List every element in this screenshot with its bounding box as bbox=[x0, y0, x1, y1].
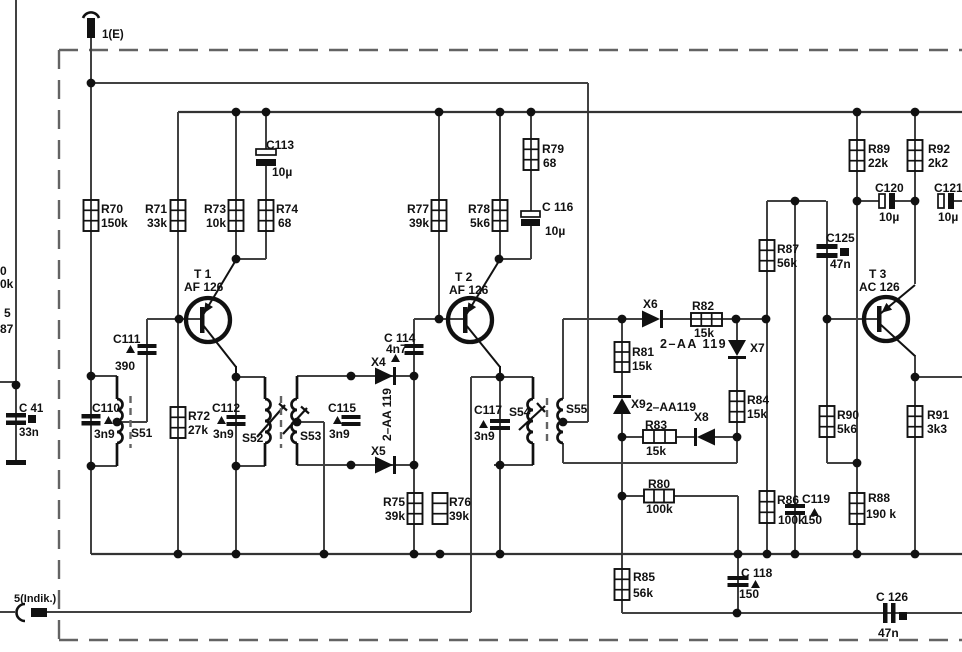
inductor S55 bbox=[558, 399, 588, 443]
svg-text:R89: R89 bbox=[868, 142, 890, 156]
capacitor C112 bbox=[212, 401, 246, 441]
diode X7 bbox=[728, 340, 765, 359]
diode X6 bbox=[642, 297, 663, 328]
capacitor C114 bbox=[384, 331, 424, 362]
resistor R88 bbox=[850, 491, 897, 524]
wire: top supply bus y=112 bbox=[178, 111, 962, 113]
dashed enclosure border left bbox=[58, 50, 60, 640]
wire: T1 collector tank vertical x=236 bbox=[235, 377, 237, 554]
node X8/R84 bbox=[733, 433, 742, 442]
dashed enclosure border top bbox=[59, 49, 962, 51]
wire: T2 base wire bbox=[414, 318, 463, 320]
wire: T1 base wire bbox=[147, 318, 202, 320]
svg-text:47n: 47n bbox=[830, 257, 851, 271]
svg-text:R80: R80 bbox=[648, 477, 670, 491]
wire: S52 tank bottom bbox=[236, 465, 265, 467]
wire: R80 link bbox=[622, 495, 644, 497]
svg-text:T 1: T 1 bbox=[194, 267, 212, 281]
wire: detector node x=414 bbox=[413, 319, 415, 554]
node gnd R75 bbox=[410, 550, 419, 559]
wire: S54 tank bottom bbox=[494, 464, 533, 466]
wire: R77 vertical x=439 bbox=[438, 112, 440, 319]
svg-text:S53: S53 bbox=[300, 429, 322, 443]
wire: S53 bottom to X5 bbox=[297, 464, 414, 466]
resistor R84 bbox=[730, 391, 770, 422]
node bus/R78 bbox=[496, 108, 505, 117]
node T2 emitter bbox=[495, 255, 504, 264]
svg-text:C112: C112 bbox=[212, 401, 240, 415]
svg-text:15k: 15k bbox=[646, 444, 666, 458]
svg-text:87: 87 bbox=[0, 322, 14, 336]
resistor R90 bbox=[820, 406, 860, 437]
wire: S51 tap to C111 bbox=[117, 421, 147, 423]
wire: S55 bottom return y=463 bbox=[563, 462, 737, 464]
svg-text:R91: R91 bbox=[927, 408, 949, 422]
svg-text:R75: R75 bbox=[383, 495, 405, 509]
svg-text:3n9: 3n9 bbox=[329, 427, 350, 441]
node gnd R86 bbox=[763, 550, 772, 559]
svg-text:R72: R72 bbox=[188, 409, 210, 423]
svg-text:X7: X7 bbox=[750, 341, 765, 355]
svg-text:R79: R79 bbox=[542, 142, 564, 156]
svg-text:10k: 10k bbox=[206, 216, 226, 230]
resistor R87 bbox=[760, 240, 800, 271]
node S51 tap bbox=[113, 418, 122, 427]
svg-text:0k: 0k bbox=[0, 277, 14, 291]
svg-text:C 116: C 116 bbox=[542, 200, 574, 214]
svg-text:C 41: C 41 bbox=[19, 403, 44, 415]
wire: X8 node riser x=737 bbox=[736, 437, 738, 463]
wire: X6/R81/X9/R85 vertical x=622 bbox=[621, 319, 623, 395]
wire: C119 vertical x=795 bbox=[794, 201, 796, 554]
svg-text:S55: S55 bbox=[566, 402, 588, 416]
resistor R92 bbox=[908, 140, 951, 171]
resistor R74 bbox=[259, 200, 299, 231]
terminal 5(Indik.) bbox=[14, 593, 57, 621]
svg-text:5: 5 bbox=[4, 306, 11, 320]
svg-text:15k: 15k bbox=[632, 359, 652, 373]
svg-text:33n: 33n bbox=[19, 427, 39, 439]
node gnd R72 bbox=[174, 550, 183, 559]
node R82/R87 bbox=[762, 315, 771, 324]
wire: C113/R74 vertical x=266 bbox=[265, 112, 267, 149]
wire: R71/R72 vertical x=178 bbox=[177, 112, 179, 554]
wire: C116 jog y=259 bbox=[499, 258, 531, 260]
svg-text:190 k: 190 k bbox=[866, 507, 896, 521]
node T1 base bbox=[175, 315, 184, 324]
resistor R72 bbox=[171, 407, 211, 438]
resistor R89 bbox=[850, 140, 891, 171]
node gnd R80/C118 bbox=[734, 550, 743, 559]
svg-text:3k3: 3k3 bbox=[927, 422, 947, 436]
inductor S51 bbox=[117, 376, 153, 466]
inductor S52 bbox=[242, 377, 287, 466]
node C115 bottom bbox=[347, 461, 356, 470]
svg-text:X5: X5 bbox=[371, 444, 386, 458]
svg-text:5k6: 5k6 bbox=[470, 216, 490, 230]
capacitor C113 bbox=[256, 138, 294, 179]
svg-text:C111: C111 bbox=[113, 332, 141, 346]
svg-text:R87: R87 bbox=[777, 242, 799, 256]
svg-text:T 3: T 3 bbox=[869, 267, 887, 281]
svg-text:AF 126: AF 126 bbox=[449, 283, 489, 297]
wire: indicator line y=612 bbox=[47, 611, 471, 613]
node X4 cathode bbox=[410, 372, 419, 381]
node S52 tank bottom bbox=[232, 462, 241, 471]
svg-text:X8: X8 bbox=[694, 410, 709, 424]
svg-text:2–AA 119: 2–AA 119 bbox=[660, 337, 727, 351]
node S51 top bbox=[87, 372, 96, 381]
svg-text:56k: 56k bbox=[633, 586, 653, 600]
svg-text:3n9: 3n9 bbox=[474, 429, 495, 443]
node bus/C113 bbox=[262, 108, 271, 117]
wire: S55 bottom stem bbox=[562, 443, 564, 463]
transistor T3 bbox=[859, 267, 915, 356]
svg-text:R84: R84 bbox=[747, 393, 769, 407]
wire: AGC output line y=613 bbox=[622, 612, 962, 614]
resistor R80 bbox=[644, 490, 674, 503]
svg-text:68: 68 bbox=[278, 216, 292, 230]
svg-text:C110: C110 bbox=[92, 401, 120, 415]
node bus/R92 bbox=[911, 108, 920, 117]
node gnd C117 bbox=[496, 550, 505, 559]
wire: 1(E) feed vertical x=91 bbox=[90, 38, 92, 554]
svg-text:R88: R88 bbox=[868, 491, 890, 505]
resistor R82 bbox=[691, 313, 722, 326]
wire: X7/R84 vertical x=737 bbox=[736, 319, 738, 340]
node T1 collector bbox=[232, 373, 241, 382]
inductor S53 bbox=[283, 376, 322, 465]
node bus/R77 bbox=[435, 108, 444, 117]
wire: S54 tank top bbox=[471, 376, 533, 378]
wire: ground bus y=554 bbox=[91, 553, 962, 555]
wire: S53 tap bbox=[297, 421, 324, 423]
svg-text:1(E): 1(E) bbox=[102, 29, 124, 41]
wire: R83-X8 link y=437 bbox=[622, 436, 643, 438]
wire: C118 vertical x=738 bbox=[737, 554, 739, 613]
wire: S53 top to X4 bbox=[297, 375, 414, 377]
wire: R78 vertical x=500 bbox=[499, 112, 501, 259]
resistor R86 bbox=[760, 491, 806, 527]
wire: C120/C121 link y=201 bbox=[857, 200, 879, 202]
node C119 top bbox=[791, 197, 800, 206]
svg-text:R77: R77 bbox=[407, 202, 429, 216]
wire: C125 vertical x=827 bbox=[826, 201, 828, 319]
node gnd S53 tap bbox=[320, 550, 329, 559]
wire: AGC vertical down to S55 tap bbox=[587, 83, 589, 422]
resistor R83 bbox=[643, 430, 676, 443]
svg-text:AF 126: AF 126 bbox=[184, 280, 224, 294]
wire: S55 top stem bbox=[562, 319, 564, 399]
wire: R90 vertical x=827 bbox=[826, 319, 828, 463]
capacitor C118 bbox=[728, 566, 773, 601]
svg-text:15k: 15k bbox=[747, 407, 767, 421]
capacitor C125 bbox=[817, 231, 856, 271]
wire: C117 vertical x=500 bbox=[499, 377, 501, 554]
wire: filter top link y=201 bbox=[767, 200, 826, 202]
svg-text:100k: 100k bbox=[778, 513, 805, 527]
svg-text:27k: 27k bbox=[188, 423, 208, 437]
wire: R79/C116 vertical x=531 bbox=[530, 112, 532, 211]
svg-text:R76: R76 bbox=[449, 495, 471, 509]
svg-text:R92: R92 bbox=[928, 142, 950, 156]
wire: S51 tank top bbox=[91, 375, 117, 377]
svg-text:S54: S54 bbox=[509, 405, 531, 419]
svg-text:68: 68 bbox=[543, 156, 557, 170]
svg-text:AC 126: AC 126 bbox=[859, 280, 900, 294]
resistor R73 bbox=[204, 200, 244, 231]
node X5 cathode bbox=[410, 461, 419, 470]
transistor T1 bbox=[184, 260, 236, 378]
svg-text:10µ: 10µ bbox=[938, 210, 958, 224]
svg-text:R81: R81 bbox=[632, 345, 654, 359]
S54/S55 core (dashed) bbox=[546, 398, 548, 446]
wire: R90 bottom jog bbox=[827, 462, 857, 464]
svg-text:10µ: 10µ bbox=[545, 224, 565, 238]
S51 core (dashed) bbox=[129, 396, 131, 448]
node gnd R88 bbox=[853, 550, 862, 559]
svg-text:22k: 22k bbox=[868, 156, 888, 170]
wire: R92/T3 vertical x=915 bbox=[914, 112, 916, 284]
svg-text:100k: 100k bbox=[646, 502, 673, 516]
svg-text:R90: R90 bbox=[837, 408, 859, 422]
diode X9 bbox=[613, 395, 646, 414]
svg-text:2k2: 2k2 bbox=[928, 156, 948, 170]
capacitor C117 bbox=[474, 403, 510, 443]
wire: R89/R88 vertical x=857 bbox=[856, 112, 858, 554]
svg-text:X4: X4 bbox=[371, 355, 386, 369]
svg-text:C 118: C 118 bbox=[741, 566, 773, 580]
node T1 emitter bbox=[232, 255, 241, 264]
svg-text:5(Indik.): 5(Indik.) bbox=[14, 593, 57, 605]
svg-text:150k: 150k bbox=[101, 216, 128, 230]
capacitor C111 bbox=[113, 332, 157, 373]
wire: C111 branch vertical x=147 bbox=[146, 319, 148, 422]
inductor S54 bbox=[509, 377, 545, 465]
node bus/R73 bbox=[232, 108, 241, 117]
node on left line bbox=[12, 381, 21, 390]
resistor R76 bbox=[433, 493, 472, 524]
wire: stub from left edge bbox=[0, 381, 16, 383]
svg-text:2–AA 119: 2–AA 119 bbox=[380, 388, 394, 441]
node T3 base/C125 bbox=[823, 315, 832, 324]
resistor R71 bbox=[145, 200, 186, 231]
dashed enclosure border bottom bbox=[59, 639, 962, 641]
node S51 bottom bbox=[87, 462, 96, 471]
wire: indicator line x=471 bbox=[470, 377, 472, 612]
node bus/R89 bbox=[853, 108, 862, 117]
node gnd C112 bbox=[232, 550, 241, 559]
resistor R77 bbox=[407, 200, 447, 231]
svg-text:150: 150 bbox=[739, 587, 759, 601]
wire: R87/R86 vertical x=767 bbox=[766, 201, 768, 554]
wire: S55 top to X6/R82 y=319 bbox=[563, 318, 642, 320]
resistor R78 bbox=[468, 200, 508, 231]
S52/S53 core (dashed) bbox=[280, 396, 282, 448]
resistor R81 bbox=[615, 342, 655, 373]
wire: left off-page vertical line bbox=[15, 0, 17, 462]
svg-text:R71: R71 bbox=[145, 202, 167, 216]
ground symbol bbox=[6, 460, 26, 465]
svg-text:R82: R82 bbox=[692, 299, 714, 313]
capacitor C126 bbox=[876, 590, 908, 640]
svg-text:56k: 56k bbox=[777, 256, 797, 270]
svg-text:T 2: T 2 bbox=[455, 270, 473, 284]
svg-text:C 126: C 126 bbox=[876, 590, 908, 604]
capacitor C116 bbox=[521, 200, 574, 238]
capacitor C120 bbox=[875, 181, 904, 224]
wire: AGC line y=83 from 1(E) bbox=[91, 82, 588, 84]
svg-text:C113: C113 bbox=[266, 138, 294, 152]
node C115 top bbox=[347, 372, 356, 381]
resistor R75 bbox=[383, 493, 423, 524]
node gnd C119 bbox=[791, 550, 800, 559]
svg-text:3n9: 3n9 bbox=[213, 427, 234, 441]
diode X4 bbox=[371, 355, 396, 385]
node X6 anode bbox=[618, 315, 627, 324]
svg-text:10µ: 10µ bbox=[272, 165, 292, 179]
svg-text:3n9: 3n9 bbox=[94, 427, 115, 441]
node R82/X7 bbox=[732, 315, 741, 324]
resistor R85 bbox=[615, 569, 656, 600]
node C118/indicator bbox=[733, 609, 742, 618]
svg-text:C119: C119 bbox=[802, 492, 830, 506]
svg-text:X6: X6 bbox=[643, 297, 658, 311]
resistor R79 bbox=[524, 139, 565, 170]
diode X8 bbox=[694, 410, 715, 446]
svg-text:R78: R78 bbox=[468, 202, 490, 216]
svg-text:C121: C121 bbox=[934, 181, 962, 195]
svg-text:0: 0 bbox=[0, 264, 7, 278]
node S55 tap bbox=[559, 418, 568, 427]
resistor R91 bbox=[908, 406, 950, 437]
wire: indicator terminal lead bbox=[0, 611, 15, 613]
svg-text:R74: R74 bbox=[276, 202, 298, 216]
svg-text:R85: R85 bbox=[633, 570, 655, 584]
svg-text:R70: R70 bbox=[101, 202, 123, 216]
capacitor C41 bbox=[6, 403, 44, 439]
wire: S52 tank top bbox=[236, 376, 265, 378]
svg-text:R83: R83 bbox=[645, 418, 667, 432]
node gnd R91 bbox=[911, 550, 920, 559]
wire: S51 tank bottom bbox=[91, 465, 117, 467]
wire: S55 tap bbox=[563, 421, 588, 423]
capacitor C119 bbox=[785, 492, 830, 527]
svg-text:5k6: 5k6 bbox=[837, 422, 857, 436]
svg-text:390: 390 bbox=[115, 359, 135, 373]
svg-text:2–AA119: 2–AA119 bbox=[646, 400, 696, 414]
node C117 bottom bbox=[496, 461, 505, 470]
node T2 collector bbox=[496, 373, 505, 382]
resistor R70 bbox=[84, 200, 129, 231]
diode X5 bbox=[371, 444, 396, 474]
wire: T3 collector output y=377 bbox=[915, 376, 962, 378]
svg-text:C115: C115 bbox=[328, 401, 356, 415]
svg-text:X9: X9 bbox=[631, 397, 646, 411]
svg-text:C117: C117 bbox=[474, 403, 502, 417]
node S53 tap bbox=[293, 418, 302, 427]
wire: T3 base wire bbox=[827, 318, 878, 320]
svg-text:39k: 39k bbox=[409, 216, 429, 230]
svg-text:S51: S51 bbox=[131, 426, 153, 440]
svg-text:4n7: 4n7 bbox=[386, 342, 407, 356]
svg-text:39k: 39k bbox=[449, 509, 469, 523]
svg-text:39k: 39k bbox=[385, 509, 405, 523]
wire: S53 tap ground drop x=324 bbox=[323, 422, 325, 554]
node C120/C121/T3e bbox=[911, 197, 920, 206]
node T3 collector bbox=[911, 373, 920, 382]
node gnd R76 bbox=[436, 550, 445, 559]
svg-text:C125: C125 bbox=[826, 231, 855, 245]
capacitor C115 bbox=[328, 401, 361, 441]
svg-text:C120: C120 bbox=[875, 181, 904, 195]
node X9 cathode bbox=[618, 433, 627, 442]
terminal 1(E) bbox=[83, 12, 124, 41]
wire: R80 drop x=738 bbox=[737, 496, 739, 554]
capacitor C121 bbox=[934, 181, 962, 224]
svg-text:10µ: 10µ bbox=[879, 210, 899, 224]
node R80 left bbox=[618, 492, 627, 501]
capacitor C110 bbox=[82, 401, 121, 441]
transistor T2 bbox=[448, 261, 500, 378]
svg-text:R73: R73 bbox=[204, 202, 226, 216]
node 1(E)/AGC junction bbox=[87, 79, 96, 88]
svg-text:33k: 33k bbox=[147, 216, 167, 230]
node T2 base bbox=[435, 315, 444, 324]
wire: R73 vertical x=236 bbox=[235, 112, 237, 259]
label fragments of off-page components bbox=[0, 264, 14, 336]
wire: emitter jog y=259 bbox=[236, 258, 266, 260]
node R89/C120 bbox=[853, 197, 862, 206]
svg-text:47n: 47n bbox=[878, 626, 899, 640]
node R90/R88 bbox=[853, 459, 862, 468]
node bus/R79 bbox=[527, 108, 536, 117]
